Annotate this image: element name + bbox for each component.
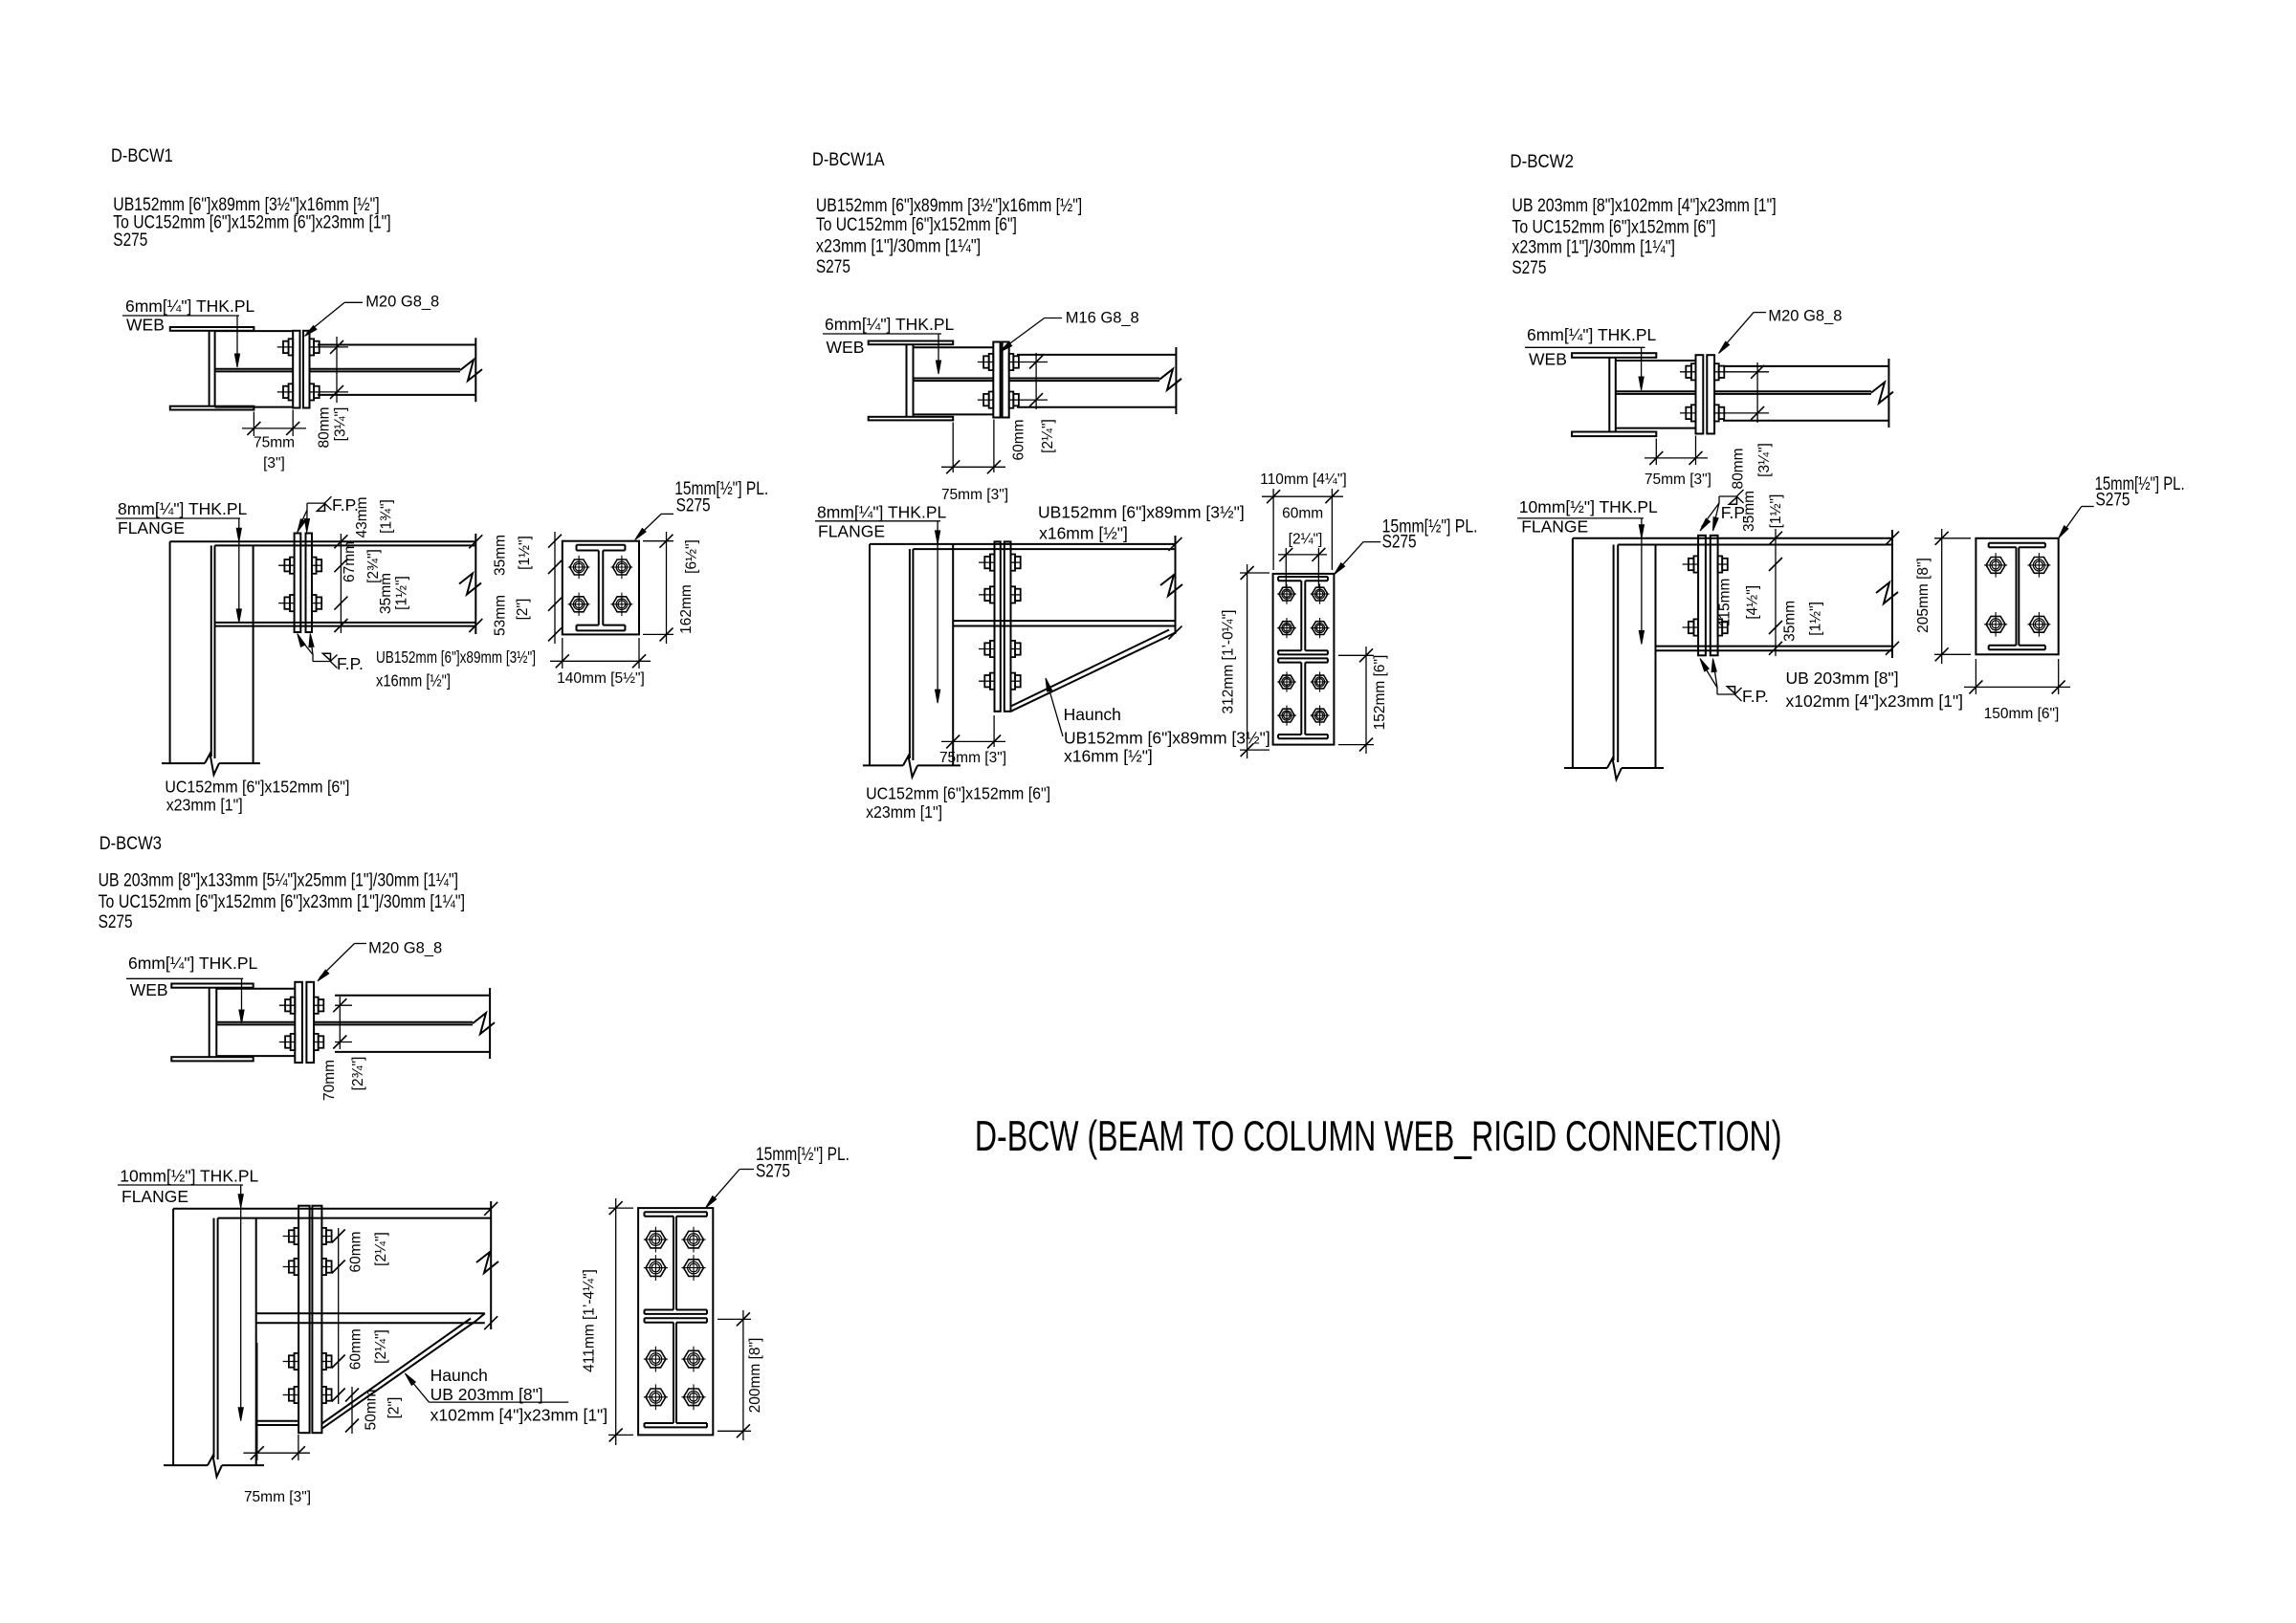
svg-text:Haunch: Haunch — [430, 1366, 488, 1385]
svg-text:8mm[¼"] THK.PL: 8mm[¼"] THK.PL — [118, 499, 247, 518]
dimension 140mm (D-BCW1 end view) — [550, 638, 651, 687]
column UC152 (D-BCW3 elev) — [173, 1209, 256, 1465]
label 6mm THK.PL WEB (D-BCW2 plan) — [1525, 325, 1656, 390]
weld symbol F.P. bottom (D-BCW2 elev) — [1700, 659, 1769, 707]
label Haunch UB203 (D-BCW3 elev) — [405, 1366, 607, 1425]
sheet title D-BCW — [975, 1113, 1782, 1160]
dimension chain 60/60/50mm (D-BCW3 elev) — [332, 1228, 403, 1434]
column UC152 section (D-BCW1A plan) — [869, 341, 954, 421]
svg-text:[4½"]: [4½"] — [1745, 585, 1761, 620]
svg-text:35mm: 35mm — [1782, 601, 1799, 642]
dimension 152mm (D-BCW1A end view) — [1338, 647, 1388, 754]
end plates (D-BCW1A plan) — [993, 342, 1008, 418]
dimension 60mm (D-BCW1A end view) — [1278, 506, 1327, 588]
svg-text:80mm: 80mm — [316, 406, 332, 448]
svg-text:UB 203mm [8"]x102mm [4"]x23mm: UB 203mm [8"]x102mm [4"]x23mm [1"] — [1512, 196, 1776, 216]
svg-text:x16mm [½"]: x16mm [½"] — [376, 671, 451, 691]
svg-text:140mm [5½"]: 140mm [5½"] — [557, 670, 645, 687]
svg-text:115mm: 115mm — [1716, 579, 1733, 627]
svg-text:80mm: 80mm — [1731, 448, 1747, 489]
spec text D-BCW1A — [816, 196, 1082, 277]
bolt M20 row2 (D-BCW1 elev) — [278, 595, 321, 611]
beam UB152 (D-BCW1A plan) — [1009, 347, 1181, 414]
stub bottom flange (D-BCW3 elev) — [256, 1421, 298, 1425]
label 15mm PL S275 (D-BCW3 end view) — [706, 1145, 850, 1208]
svg-text:10mm[½"] THK.PL: 10mm[½"] THK.PL — [120, 1167, 258, 1186]
svg-text:75mm [3"]: 75mm [3"] — [1645, 472, 1711, 488]
svg-text:60mm: 60mm — [347, 1328, 364, 1370]
svg-text:To UC152mm [6"]x152mm [6"]x23m: To UC152mm [6"]x152mm [6"]x23mm [1"]/30m… — [99, 892, 465, 912]
svg-text:D-BCW3: D-BCW3 — [99, 834, 162, 854]
column bottom break (D-BCW1 elev) — [162, 754, 260, 775]
label 10mm THK.PL FLANGE (D-BCW2 elev) — [1517, 497, 1658, 645]
dimension 80mm (D-BCW1 plan) — [316, 337, 348, 449]
svg-text:67mm: 67mm — [342, 541, 358, 582]
dimension chain 43/67/35mm (D-BCW1 elev) — [334, 496, 409, 633]
svg-text:D-BCW (BEAM TO COLUMN WEB_RIGI: D-BCW (BEAM TO COLUMN WEB_RIGID CONNECTI… — [975, 1113, 1782, 1160]
svg-text:6mm[¼"] THK.PL: 6mm[¼"] THK.PL — [825, 315, 954, 334]
bolt face M20 x8 (D-BCW3 end view) — [644, 1227, 706, 1411]
dimension 70mm (D-BCW3 plan) — [321, 997, 366, 1101]
svg-text:162mm: 162mm — [678, 584, 695, 634]
svg-text:110mm [4¼"]: 110mm [4¼"] — [1260, 472, 1347, 488]
beam UB203 (D-BCW3 plan) — [314, 988, 495, 1059]
svg-text:75mm [3"]: 75mm [3"] — [941, 487, 1008, 503]
beam end break (D-BCW3 elev) — [476, 1201, 498, 1329]
haunch plate (D-BCW1A elev) — [1011, 626, 1176, 712]
svg-text:UC152mm [6"]x152mm [6"]: UC152mm [6"]x152mm [6"] — [866, 784, 1050, 803]
view title D-BCW1 — [111, 146, 173, 166]
svg-text:[3"]: [3"] — [263, 455, 285, 472]
column bottom break (D-BCW1A elev) — [863, 756, 960, 777]
svg-text:x23mm [1"]/30mm [1¼"]: x23mm [1"]/30mm [1¼"] — [816, 237, 981, 257]
bolt M20 row2 (D-BCW2 elev) — [1683, 619, 1728, 635]
label UC152 column (D-BCW1 elev) — [165, 778, 349, 815]
svg-text:UB 203mm [8"]: UB 203mm [8"] — [1786, 669, 1899, 688]
svg-text:x16mm [½"]: x16mm [½"] — [1039, 524, 1128, 543]
svg-text:[2"]: [2"] — [515, 599, 531, 621]
label 6mm THK.PL WEB (D-BCW1A plan) — [823, 315, 954, 374]
svg-text:411mm [1’-4¼"]: 411mm [1’-4¼"] — [582, 1269, 598, 1372]
svg-text:6mm[¼"] THK.PL: 6mm[¼"] THK.PL — [125, 296, 254, 316]
svg-text:[2¼"]: [2¼"] — [373, 1329, 389, 1364]
column UC152 (D-BCW1 elev) — [170, 541, 254, 763]
spec text D-BCW2 — [1512, 196, 1776, 278]
svg-text:D-BCW1A: D-BCW1A — [812, 150, 885, 170]
dimension 75mm (D-BCW3 elev) — [243, 1343, 311, 1505]
svg-text:[2¾"]: [2¾"] — [350, 1057, 366, 1091]
svg-text:F.P.: F.P. — [1742, 687, 1769, 706]
svg-text:S275: S275 — [676, 496, 711, 516]
bolt M20 row1 (D-BCW3 elev) — [283, 1228, 332, 1244]
bolt M16 row1 (D-BCW1A plan) — [978, 354, 1019, 370]
dimension 75mm (D-BCW1 plan) — [242, 410, 306, 472]
beam flange lines (D-BCW1A elev) — [870, 544, 1176, 626]
svg-text:FLANGE: FLANGE — [118, 518, 185, 537]
bolt M20 row2 (D-BCW2 plan) — [1680, 405, 1724, 421]
label 8mm THK.PL FLANGE (D-BCW1 elev) — [116, 499, 247, 623]
dimension 150mm (D-BCW2 end view) — [1964, 659, 2070, 722]
svg-text:F.P.: F.P. — [337, 654, 364, 673]
svg-text:[1½"]: [1½"] — [394, 576, 410, 610]
svg-text:200mm [8"]: 200mm [8"] — [747, 1338, 763, 1414]
haunch plate (D-BCW3 elev) — [321, 1313, 484, 1429]
label M20 G8_8 (D-BCW3 plan) — [318, 940, 442, 981]
beam section (D-BCW2 end view) — [1989, 543, 2045, 650]
view title D-BCW1A — [812, 150, 885, 170]
column bottom break (D-BCW3 elev) — [164, 1456, 264, 1477]
bolt M20 row2 (D-BCW3 elev) — [283, 1259, 332, 1275]
end plates (D-BCW2 elev) — [1698, 536, 1718, 656]
connection stub (D-BCW3 plan) — [216, 989, 295, 1056]
label 6mm THK.PL WEB (D-BCW3 plan) — [126, 954, 257, 1023]
bolt M20 row1 (D-BCW1 plan) — [277, 339, 320, 355]
svg-text:M20 G8_8: M20 G8_8 — [368, 940, 442, 957]
svg-text:[1¾"]: [1¾"] — [379, 499, 395, 534]
beam UB203 (D-BCW2 plan) — [1714, 359, 1893, 428]
svg-text:S275: S275 — [113, 230, 147, 251]
svg-text:S275: S275 — [99, 912, 133, 932]
label M16 G8_8 (D-BCW1A plan) — [1000, 310, 1139, 353]
svg-text:S275: S275 — [756, 1162, 790, 1182]
label 10mm THK.PL FLANGE (D-BCW3 elev) — [118, 1167, 259, 1421]
svg-text:WEB: WEB — [126, 316, 165, 335]
dimension 411mm (D-BCW3 end view) — [582, 1198, 634, 1445]
svg-text:UB 203mm [8"]x133mm [5¼"]x25mm: UB 203mm [8"]x133mm [5¼"]x25mm [1"]/30mm… — [99, 870, 458, 890]
column UC152 section (D-BCW3 plan) — [171, 984, 253, 1062]
beam section (D-BCW1 end view) — [577, 545, 626, 631]
beam end break (D-BCW1A elev) — [1160, 536, 1182, 640]
svg-text:WEB: WEB — [130, 980, 168, 999]
svg-text:6mm[¼"] THK.PL: 6mm[¼"] THK.PL — [1527, 325, 1656, 344]
svg-text:D-BCW2: D-BCW2 — [1510, 152, 1574, 172]
svg-text:UB152mm [6"]x89mm [3½"]: UB152mm [6"]x89mm [3½"] — [1038, 503, 1245, 522]
dimension chain 35/53mm (D-BCW1 end view) — [493, 532, 563, 644]
svg-text:35mm: 35mm — [1741, 491, 1757, 532]
beam UB152 (D-BCW1 plan) — [310, 338, 483, 402]
weld symbol F.P. top (D-BCW1 elev) — [298, 495, 359, 533]
label 15mm PL S275 (D-BCW1 end view) — [635, 479, 769, 539]
svg-text:M20 G8_8: M20 G8_8 — [1768, 308, 1842, 325]
svg-text:FLANGE: FLANGE — [818, 522, 885, 541]
end plates (D-BCW2 plan) — [1696, 355, 1715, 433]
svg-text:FLANGE: FLANGE — [121, 1187, 188, 1206]
bolt M20 row2 (D-BCW1 plan) — [277, 384, 320, 400]
bolt M16 row2 (D-BCW1A plan) — [978, 392, 1019, 408]
svg-text:S275: S275 — [1512, 258, 1546, 278]
label 15mm PL S275 (D-BCW2 end view) — [2059, 474, 2185, 538]
dimension 205mm (D-BCW2 end view) — [1915, 529, 1971, 664]
label UB203 beam (D-BCW2 elev) — [1786, 669, 1964, 711]
end plates (D-BCW1 elev) — [295, 534, 312, 633]
svg-text:FLANGE: FLANGE — [1521, 517, 1588, 537]
svg-text:[3¼"]: [3¼"] — [1756, 443, 1773, 477]
label UB152 beam (D-BCW1 elev) — [376, 647, 536, 691]
svg-text:205mm [8"]: 205mm [8"] — [1915, 558, 1932, 633]
svg-text:WEB: WEB — [1529, 350, 1567, 369]
view title D-BCW3 — [99, 834, 162, 854]
svg-text:Haunch: Haunch — [1064, 705, 1121, 724]
dimension chain 35/115/35mm (D-BCW2 elev) — [1716, 491, 1823, 656]
column UC152 section (D-BCW1 plan) — [170, 327, 254, 410]
svg-text:M20 G8_8: M20 G8_8 — [365, 293, 439, 310]
svg-text:75mm [3"]: 75mm [3"] — [939, 750, 1006, 766]
svg-text:[2¼"]: [2¼"] — [1040, 419, 1056, 453]
label 6mm THK.PL WEB (D-BCW1 plan) — [122, 296, 254, 367]
label UB152 beam (D-BCW1A elev) — [1038, 503, 1245, 543]
end plate 150x205 (D-BCW2 end view) — [1976, 538, 2058, 655]
svg-text:[1½"]: [1½"] — [517, 536, 533, 570]
svg-text:43mm: 43mm — [354, 496, 370, 537]
bolt face M20 x4 (D-BCW2 end view) — [1984, 553, 2050, 637]
bolt M20 row3 (D-BCW3 elev) — [283, 1353, 332, 1370]
column UC152 (D-BCW1A elev) — [870, 544, 953, 766]
end plates (D-BCW1 plan) — [293, 331, 309, 408]
bolt M16 row4 (D-BCW1A elev) — [979, 673, 1021, 690]
label 8mm THK.PL FLANGE (D-BCW1A elev) — [815, 503, 946, 703]
svg-text:S275: S275 — [816, 257, 850, 277]
end plate long (D-BCW1A elev) — [995, 541, 1011, 711]
svg-text:To UC152mm [6"]x152mm [6"]: To UC152mm [6"]x152mm [6"] — [1512, 218, 1715, 238]
end plate 140x162 (D-BCW1 end view) — [563, 541, 639, 635]
svg-text:75mm: 75mm — [254, 434, 295, 450]
svg-text:UB 203mm [8"]: UB 203mm [8"] — [430, 1385, 543, 1404]
svg-text:x23mm [1"]: x23mm [1"] — [166, 796, 243, 815]
svg-text:50mm: 50mm — [364, 1389, 380, 1430]
beam+haunch sections (D-BCW1A end view) — [1278, 577, 1328, 738]
bolt M16 row1 (D-BCW1A elev) — [979, 555, 1021, 571]
beam flange lines (D-BCW3 elev) — [173, 1209, 491, 1323]
dimension 110mm (D-BCW1A end view) — [1260, 472, 1347, 570]
label M20 G8_8 (D-BCW2 plan) — [1719, 308, 1843, 354]
connection stub (D-BCW1 plan) — [215, 331, 294, 407]
svg-text:S275: S275 — [2096, 491, 2130, 511]
column UC152 section (D-BCW2 plan) — [1572, 353, 1656, 436]
svg-text:x102mm [4"]x23mm [1"]: x102mm [4"]x23mm [1"] — [1786, 691, 1964, 711]
svg-text:x23mm [1"]: x23mm [1"] — [866, 802, 942, 822]
svg-text:UB152mm [6"]x89mm [3½"]: UB152mm [6"]x89mm [3½"] — [1064, 729, 1270, 748]
svg-text:[2"]: [2"] — [386, 1397, 403, 1419]
bolt M20 row4 (D-BCW3 elev) — [283, 1387, 332, 1403]
dimension 75mm (D-BCW2 plan) — [1645, 436, 1711, 489]
svg-text:60mm: 60mm — [347, 1231, 364, 1272]
svg-text:60mm: 60mm — [1011, 419, 1027, 460]
weld symbol F.P. top (D-BCW2 elev) — [1700, 490, 1748, 531]
label Haunch UB152 (D-BCW1A elev) — [1046, 678, 1270, 766]
svg-text:6mm[¼"] THK.PL: 6mm[¼"] THK.PL — [128, 954, 257, 973]
end plate long (D-BCW3 elev) — [298, 1206, 321, 1434]
svg-text:312mm [1’-0¼"]: 312mm [1’-0¼"] — [1221, 610, 1237, 714]
end plate 110x312 (D-BCW1A end view) — [1273, 574, 1335, 745]
end plate 200x411 (D-BCW3 end view) — [638, 1208, 713, 1435]
svg-text:53mm: 53mm — [493, 595, 509, 636]
weld symbol F.P. bottom (D-BCW1 elev) — [298, 634, 364, 674]
svg-text:35mm: 35mm — [378, 573, 394, 614]
beam end break (D-BCW1 elev) — [459, 534, 482, 634]
svg-text:UB152mm [6"]x89mm [3½"]: UB152mm [6"]x89mm [3½"] — [376, 647, 536, 667]
spec text D-BCW1 — [113, 195, 390, 251]
svg-text:35mm: 35mm — [493, 535, 509, 576]
svg-text:8mm[¼"] THK.PL: 8mm[¼"] THK.PL — [817, 503, 946, 522]
beam flange lines (D-BCW2 elev) — [1573, 538, 1892, 651]
spec text D-BCW3 — [99, 870, 465, 932]
connection stub (D-BCW2 plan) — [1616, 361, 1696, 428]
connection stub (D-BCW1A plan) — [914, 347, 994, 414]
svg-text:x23mm [1"]/30mm [1¼"]: x23mm [1"]/30mm [1¼"] — [1512, 238, 1675, 258]
svg-text:M16 G8_8: M16 G8_8 — [1066, 310, 1139, 327]
label 15mm PL S275 (D-BCW1A end view) — [1334, 517, 1477, 575]
bolt face M20 x4 (D-BCW1 end view) — [568, 556, 633, 616]
svg-text:[6½"]: [6½"] — [684, 539, 700, 574]
beam end break (D-BCW2 elev) — [1876, 530, 1899, 658]
svg-text:70mm: 70mm — [321, 1060, 338, 1101]
bolt M16 row3 (D-BCW1A elev) — [979, 641, 1021, 657]
svg-text:D-BCW1: D-BCW1 — [111, 146, 173, 166]
svg-text:[3¼"]: [3¼"] — [333, 407, 349, 442]
dimension 80mm (D-BCW2 plan) — [1725, 362, 1773, 490]
svg-text:UB152mm [6"]x89mm [3½"]x16mm [: UB152mm [6"]x89mm [3½"]x16mm [½"] — [816, 196, 1082, 216]
svg-text:[1½"]: [1½"] — [1768, 494, 1784, 529]
dimension 312mm (D-BCW1A end view) — [1221, 564, 1269, 758]
bolt M20 row2 (D-BCW3 plan) — [279, 1034, 324, 1050]
end plates (D-BCW3 plan) — [295, 982, 314, 1063]
svg-text:To UC152mm [6"]x152mm [6"]x23m: To UC152mm [6"]x152mm [6"]x23mm [1"] — [113, 213, 390, 233]
svg-text:To UC152mm [6"]x152mm [6"]: To UC152mm [6"]x152mm [6"] — [816, 215, 1017, 235]
beam flange lines (D-BCW1 elev) — [170, 541, 476, 625]
bolt face M16 x8 (D-BCW1A end view) — [1277, 584, 1329, 726]
dimension 60mm (D-BCW1A plan) — [1011, 353, 1057, 461]
svg-text:60mm: 60mm — [1282, 506, 1323, 522]
bolt M20 row1 (D-BCW2 elev) — [1683, 556, 1728, 572]
svg-text:x102mm [4"]x23mm [1"]: x102mm [4"]x23mm [1"] — [430, 1406, 608, 1425]
column UC152 (D-BCW2 elev) — [1573, 538, 1656, 768]
svg-text:[1½"]: [1½"] — [1808, 602, 1824, 636]
svg-text:x16mm [½"]: x16mm [½"] — [1064, 747, 1153, 766]
beam+haunch sections (D-BCW3 end view) — [645, 1212, 708, 1427]
svg-text:UC152mm [6"]x152mm [6"]: UC152mm [6"]x152mm [6"] — [165, 778, 349, 797]
dimension 75mm (D-BCW1A elev) — [939, 705, 1006, 766]
label UC152 column (D-BCW1A elev) — [866, 784, 1050, 822]
svg-text:[2¼"]: [2¼"] — [373, 1232, 389, 1266]
bolt M20 row1 (D-BCW3 plan) — [279, 998, 324, 1014]
svg-text:150mm [6"]: 150mm [6"] — [1984, 706, 2060, 722]
svg-text:152mm [6"]: 152mm [6"] — [1372, 655, 1388, 731]
column bottom break (D-BCW2 elev) — [1564, 758, 1664, 779]
svg-text:S275: S275 — [1382, 532, 1417, 552]
dimension 200mm (D-BCW3 end view) — [717, 1310, 763, 1440]
view title D-BCW2 — [1510, 152, 1574, 172]
dimension 162mm (D-BCW1 end view) — [643, 532, 700, 644]
label M20 G8_8 (D-BCW1 plan) — [305, 293, 440, 336]
svg-text:[2¼"]: [2¼"] — [1289, 532, 1323, 548]
svg-text:75mm [3"]: 75mm [3"] — [244, 1489, 311, 1505]
bolt M20 row1 (D-BCW2 plan) — [1680, 363, 1724, 380]
svg-text:WEB: WEB — [827, 338, 865, 357]
svg-text:10mm[½"] THK.PL: 10mm[½"] THK.PL — [1519, 497, 1658, 516]
dimension 75mm (D-BCW1A plan) — [941, 420, 1008, 504]
bolt M20 row1 (D-BCW1 elev) — [278, 558, 321, 574]
bolt M16 row2 (D-BCW1A elev) — [979, 586, 1021, 603]
